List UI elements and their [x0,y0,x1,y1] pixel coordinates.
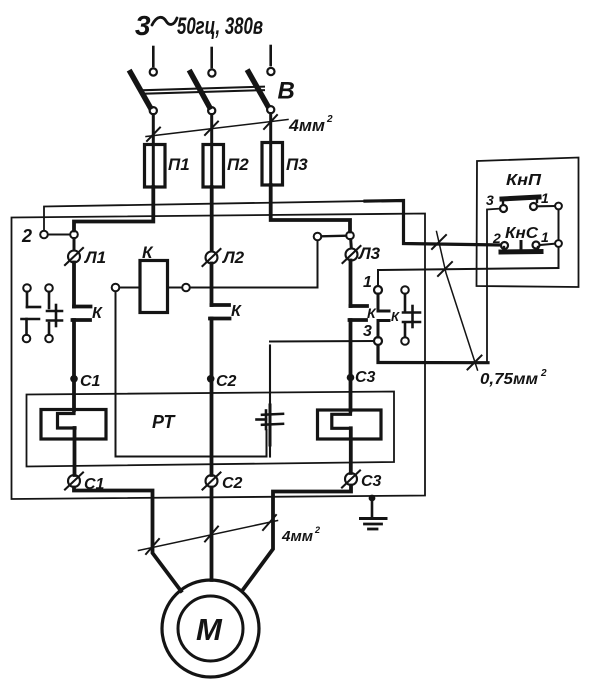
wire PT contact to terminal 3 [270,340,374,343]
cable mark 4mm2 bottom [139,515,278,554]
wire switch to fuses [153,114,270,189]
terminal Л2 [203,249,221,266]
knife switch B blade 2 [191,73,210,108]
junction circle phase1 [70,231,78,239]
node C2 [207,375,215,383]
svg-text:2: 2 [540,368,547,379]
junction circle phase3 [346,232,354,240]
main contact K phase1 [73,263,91,376]
supply label 3~50гц 380в [135,10,263,41]
svg-text:1: 1 [541,190,549,206]
svg-text:КнС: КнС [505,225,538,242]
button loop corner circles [555,203,562,210]
wire junction to Л3 [349,240,353,249]
svg-text:4мм: 4мм [281,528,313,545]
button right loop wires [538,206,559,268]
svg-text:3: 3 [135,10,151,41]
phase 2 straight wire [210,187,214,250]
motor wire phase1 [74,488,181,592]
junction circle coil feed [314,233,322,241]
svg-text:С3: С3 [355,369,376,386]
svg-text:3: 3 [486,192,494,208]
phase 3 jog wire [271,185,350,232]
fuse П2 [203,145,224,188]
motor M [162,580,259,677]
cable mark 4mm2 top [146,115,288,141]
knife switch B blade 3 [249,72,268,106]
heater element 1 [41,410,106,440]
svg-text:П3: П3 [286,155,308,174]
motor wire phase2 [210,488,214,581]
wire junction to Л1 [73,239,76,251]
svg-text:С2: С2 [216,373,237,390]
knife switch link bar [141,87,264,94]
svg-text:П2: П2 [227,155,249,174]
relay box PT [27,392,395,467]
label 0,75мм2 [480,368,547,388]
button КнС (stop) [501,242,541,253]
svg-text:С1: С1 [80,373,101,390]
svg-text:3: 3 [363,323,372,340]
button КнП (start) [500,197,539,212]
terminal C3 bottom [342,471,360,488]
spare contact left A [22,284,41,342]
node C1 [70,375,78,383]
wire coil left down [116,292,267,457]
knife switch B blade 1 [131,73,151,108]
contactor coil K [140,261,168,313]
svg-text:50гц, 380в: 50гц, 380в [177,13,263,40]
svg-text:С3: С3 [361,473,382,490]
wire coil right to phase3 junction [190,241,318,288]
svg-text:2: 2 [492,230,501,246]
control wire 3 [378,346,488,363]
coil right terminal circle [182,284,190,292]
svg-text:К: К [92,305,103,322]
button station box [477,158,579,288]
svg-text:К: К [231,303,242,320]
terminal Л1 [65,248,83,265]
wire through heater1 [72,383,76,411]
svg-text:К: К [391,309,400,324]
svg-text:РТ: РТ [152,412,176,432]
label 4мм2 top [288,114,333,135]
svg-text:1: 1 [541,229,549,245]
svg-text:К: К [142,243,154,262]
terminal 2 circle [40,231,48,239]
ground [361,495,387,529]
label 4мм2 bottom [281,525,320,545]
heater element 2 [318,410,382,439]
svg-text:2: 2 [326,114,333,125]
svg-text:Л1: Л1 [83,248,106,267]
terminal C2 bottom [203,473,221,490]
svg-text:0,75мм: 0,75мм [480,371,538,388]
svg-text:В: В [278,78,295,105]
svg-text:Л2: Л2 [221,248,245,267]
svg-text:Л3: Л3 [357,244,381,263]
fuse П3 [262,143,283,186]
supply stub L3 [267,46,274,75]
wire phase2 through PT box [210,383,214,476]
wire through heater2 [349,382,353,411]
motor wire phase3 [242,486,351,592]
spare contact left B [45,284,62,342]
phase 1 jog wire [74,187,153,231]
knife switch hinge circles [150,106,275,114]
control wire 2 [44,201,365,230]
spare contact right [401,286,420,345]
starter enclosure box [12,214,426,500]
aux contact K [378,294,389,337]
node C3 [347,374,355,382]
svg-text:С2: С2 [222,475,243,492]
wire between junctions [322,234,347,237]
svg-text:М: М [196,612,223,647]
svg-text:2: 2 [314,525,320,535]
svg-text:К: К [367,305,377,321]
svg-text:П1: П1 [168,155,190,174]
supply stub L1 [150,47,157,76]
svg-text:1: 1 [363,274,372,291]
control wire 1 [378,268,559,286]
svg-text:4мм: 4мм [288,116,325,135]
supply stub L2 [208,48,215,77]
terminal Л3 [343,246,361,263]
fuse П1 [145,145,166,188]
svg-text:2: 2 [21,226,32,246]
terminal C1 bottom [65,473,83,490]
coil left terminal circle [112,284,120,292]
main contact K phase3 [350,261,368,375]
svg-text:КнП: КнП [506,172,542,189]
cable 0.75mm2 [432,232,482,371]
thermal contact PT [257,346,284,457]
wire terminal2 to phase1 [48,234,70,236]
main contact K phase2 [210,264,230,376]
